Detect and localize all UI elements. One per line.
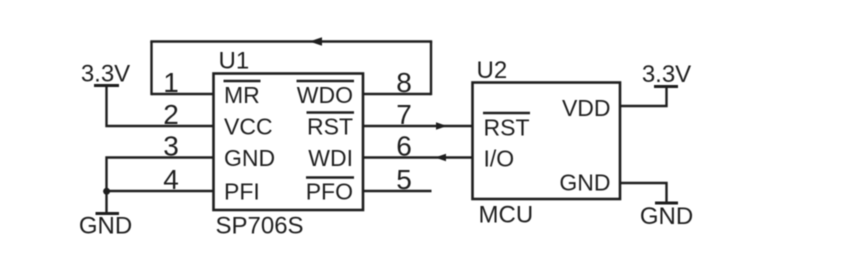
svg-text:8: 8 (396, 67, 412, 98)
wire pin1 MR to left vertical (152, 93, 214, 95)
svg-text:4: 4 (163, 164, 179, 195)
wire VDD to 3.3V (620, 87, 667, 107)
svg-text:3: 3 (163, 131, 179, 162)
pin name PFO with overline (306, 178, 354, 205)
svg-text:PFI: PFI (224, 179, 260, 205)
svg-text:GND: GND (79, 213, 132, 240)
pin name RST (U2) with overline (483, 113, 530, 141)
ground bar left (96, 212, 120, 215)
svg-text:MR: MR (224, 82, 260, 108)
svg-text:VCC: VCC (224, 114, 273, 140)
wire pin3 GND down to ground (107, 158, 214, 214)
svg-text:I/O: I/O (484, 146, 515, 172)
svg-text:6: 6 (396, 131, 412, 162)
arrowhead RST into U2 (points right) (436, 122, 447, 130)
svg-text:GND: GND (640, 203, 693, 230)
svg-text:RST: RST (484, 115, 530, 141)
svg-text:RST: RST (307, 114, 353, 140)
wire 3.3V to VCC pin2 (107, 86, 214, 127)
svg-text:SP706S: SP706S (216, 213, 304, 240)
svg-text:MCU: MCU (479, 202, 534, 229)
svg-text:3.3V: 3.3V (642, 61, 691, 88)
svg-text:1: 1 (163, 67, 179, 98)
chip U2 body (473, 83, 621, 200)
pin name MR with overline (224, 81, 261, 108)
power bar 3.3V right (654, 85, 678, 88)
svg-text:WDO: WDO (297, 82, 353, 108)
svg-text:5: 5 (396, 164, 412, 195)
svg-text:U1: U1 (219, 48, 250, 75)
junction node PFI/GND (103, 188, 110, 195)
svg-text:3.3V: 3.3V (81, 61, 130, 88)
ground bar right (655, 202, 678, 205)
svg-text:U2: U2 (477, 57, 508, 84)
wire pin5 PFO stub (363, 190, 432, 192)
arrowhead on loop (points left) (310, 37, 323, 46)
wire pin4 PFI (107, 190, 214, 192)
wire pin8 WDO (363, 93, 431, 95)
pin name WDO with overline (297, 81, 355, 108)
wire loop top horizontal (150, 40, 432, 42)
svg-text:PFO: PFO (306, 179, 353, 205)
svg-text:GND: GND (559, 170, 610, 196)
svg-text:7: 7 (396, 99, 412, 130)
svg-text:2: 2 (163, 99, 179, 130)
svg-text:VDD: VDD (562, 95, 611, 121)
wire loop left vertical (150, 42, 152, 96)
svg-text:WDI: WDI (308, 145, 353, 171)
wire U2 GND to ground (620, 183, 667, 203)
chip U1 body (214, 74, 364, 211)
wire pin7 RST to U2 (363, 125, 473, 127)
wire loop right vertical (430, 42, 432, 96)
arrowhead WDI toward U1 (points left) (435, 154, 446, 162)
svg-text:GND: GND (224, 145, 275, 171)
power bar 3.3V left (94, 84, 119, 87)
wire pin6 WDI from U2 (363, 156, 473, 158)
pin name RST (U1) with overline (307, 113, 355, 140)
